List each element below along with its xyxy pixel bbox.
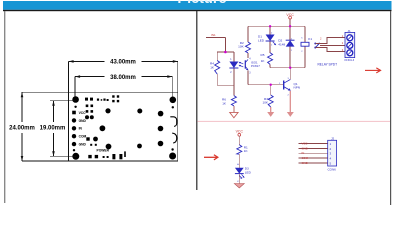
svg-text:4148: 4148	[278, 43, 285, 47]
wire base junction to R3	[270, 85, 272, 95]
svg-text:PC817: PC817	[251, 64, 260, 68]
junction node rail-VCC	[289, 25, 291, 27]
power ground arrow (D3)	[234, 184, 244, 189]
wire rail to D2	[289, 26, 291, 40]
red arrow upper right	[365, 69, 380, 71]
wire IN1 down to junction	[224, 37, 226, 52]
SMD pads middle-left block	[86, 105, 89, 108]
connector net labels	[302, 142, 309, 165]
wire D3 to ground	[238, 174, 240, 184]
opto pin numbers	[230, 58, 251, 74]
wire rail to R2	[247, 26, 249, 42]
relay K1 coil	[301, 42, 309, 46]
svg-text:GND: GND	[79, 119, 87, 123]
wire opto emitter down	[247, 71, 249, 85]
LED D1	[266, 35, 275, 42]
resistor R3 10K	[268, 95, 273, 107]
svg-text:24.00mm: 24.00mm	[9, 126, 35, 132]
svg-text:COM: COM	[302, 156, 309, 160]
red arrow lower left	[204, 156, 217, 158]
wire rail to D1	[269, 26, 271, 34]
dimension 43.00mm	[69, 61, 178, 92]
resistor R6 1K	[231, 96, 236, 106]
power ground arrow (Q1 emitter)	[289, 91, 291, 113]
silk bracket lower	[172, 133, 177, 143]
through-hole pad	[106, 144, 112, 150]
svg-text:VCC: VCC	[79, 111, 87, 115]
wire bottom join R4 to LED branch	[217, 84, 234, 86]
through-hole pad	[137, 144, 142, 149]
relay switch pole	[315, 43, 319, 48]
mounting hole bottom-left	[72, 153, 79, 160]
pad IN	[72, 126, 76, 130]
connector wires	[299, 144, 328, 163]
wire relay coil bottom	[304, 46, 306, 67]
dimension 19.00mm	[50, 101, 76, 157]
top border line	[3, 10, 392, 11]
wire opto emitter to base junction	[248, 84, 284, 86]
svg-text:Picture: Picture	[177, 0, 226, 7]
pad GND2	[72, 142, 76, 146]
wire relay coil top	[304, 26, 306, 42]
svg-text:LED: LED	[258, 38, 265, 42]
svg-text:VCC: VCC	[286, 13, 294, 17]
svg-text:19.00mm: 19.00mm	[40, 126, 66, 132]
SMD pads top row	[85, 98, 88, 101]
resistor R5 1K	[268, 53, 273, 65]
title bar	[3, 1, 392, 10]
wire R5 to collector node	[269, 64, 271, 67]
resistor R4 1K	[215, 61, 220, 75]
right page border	[390, 11, 391, 205]
bottom SMD row	[88, 155, 91, 158]
dimension 38.00mm	[75, 77, 172, 97]
svg-text:RELAY SPDT: RELAY SPDT	[318, 62, 338, 66]
relay pad 2	[158, 126, 164, 132]
wire opto-LED cathode down to R6	[233, 68, 235, 96]
optocoupler ISO1 PC817 LED	[229, 62, 238, 69]
VCC power rail	[248, 25, 305, 27]
center divider line	[196, 11, 197, 190]
svg-text:COM: COM	[79, 135, 87, 139]
svg-text:POWER: POWER	[97, 148, 110, 152]
resistor R2 10K	[246, 42, 251, 53]
svg-text:R5: R5	[261, 53, 265, 57]
dimension 24.00mm	[22, 92, 69, 161]
svg-text:J1: J1	[348, 29, 352, 33]
connector J1 KF301-3	[345, 32, 355, 57]
power port VCC upper	[289, 16, 292, 19]
mounting hole bottom-right	[169, 153, 176, 160]
svg-text:GND: GND	[302, 161, 308, 165]
optocoupler light arrows	[240, 62, 244, 64]
junction node collector	[289, 67, 291, 69]
wire VCC to R1	[238, 136, 240, 145]
junction node Q1 base	[270, 84, 272, 86]
svg-text:38.00mm: 38.00mm	[110, 75, 136, 81]
section separator pink line	[197, 120, 390, 123]
svg-text:KF301-3: KF301-3	[345, 59, 355, 62]
mounting hole top-left	[72, 96, 79, 103]
svg-text:NPN: NPN	[294, 86, 301, 90]
relay pad 1	[158, 111, 164, 117]
via dot below top-left hole	[74, 106, 76, 108]
through-hole pad	[100, 125, 106, 131]
silk bracket upper	[170, 117, 176, 127]
svg-text:10K: 10K	[262, 101, 268, 105]
transistor Q1 NPN	[283, 81, 285, 90]
pin labels	[79, 111, 110, 152]
junction node rail-D1	[269, 25, 271, 27]
wire D1 to R5	[269, 41, 271, 53]
power ground arrow (R3)	[270, 107, 272, 112]
via dot above bottom-right hole	[171, 148, 173, 150]
through-hole pad	[137, 109, 142, 114]
svg-text:CON6: CON6	[328, 167, 337, 171]
left page border	[4, 11, 5, 203]
connector J2 CON6	[328, 140, 337, 166]
resistor R1 1K	[237, 145, 242, 154]
svg-text:IN1: IN1	[211, 33, 216, 37]
wire node to Q1 collector	[289, 68, 291, 80]
pad COM	[72, 134, 76, 138]
wire R4 top	[216, 52, 218, 61]
diode D2 4148	[286, 40, 295, 46]
svg-text:K1: K1	[308, 37, 312, 41]
relay contact wires to J1	[315, 37, 345, 51]
relay pad 3	[158, 141, 164, 147]
junction node at IN1 split	[224, 51, 227, 54]
via dot below top-right hole	[172, 106, 174, 108]
LED D3	[235, 168, 244, 174]
svg-text:VCC: VCC	[302, 142, 308, 146]
wire collector node horizontal	[270, 67, 305, 69]
wire R4 bottom	[216, 74, 218, 85]
svg-text:VCC: VCC	[236, 129, 244, 133]
svg-text:10K: 10K	[238, 45, 244, 49]
wire R2 to opto collector	[247, 53, 249, 58]
wire junction split bar	[217, 51, 234, 53]
pad VCC (square)	[72, 111, 76, 115]
svg-text:43.00mm: 43.00mm	[110, 60, 136, 66]
svg-text:J2: J2	[331, 136, 335, 140]
pad GND	[72, 118, 76, 122]
wire R6 to ground	[233, 106, 235, 112]
svg-text:LED: LED	[245, 170, 252, 174]
svg-text:GND: GND	[302, 147, 308, 151]
wire VCC port drop	[289, 19, 291, 26]
through-hole pad	[105, 108, 110, 113]
wire R1 to D3	[238, 154, 240, 168]
mounting hole top-right	[170, 97, 177, 104]
svg-text:GND: GND	[79, 143, 87, 147]
ground (open triangle)	[230, 112, 238, 117]
svg-text:IN: IN	[302, 151, 305, 155]
bottom-left pad block	[86, 137, 89, 140]
PCB board outline	[69, 92, 178, 161]
connector pin numbers J1	[320, 34, 344, 52]
wire D2 to node	[289, 47, 291, 68]
SMD pad cluster 2x2	[112, 95, 114, 97]
via dot above bottom-left hole	[73, 149, 75, 151]
wire opto-LED anode	[233, 52, 235, 62]
optocoupler phototransistor	[244, 60, 246, 68]
wire IN1 horizontal	[206, 36, 226, 38]
